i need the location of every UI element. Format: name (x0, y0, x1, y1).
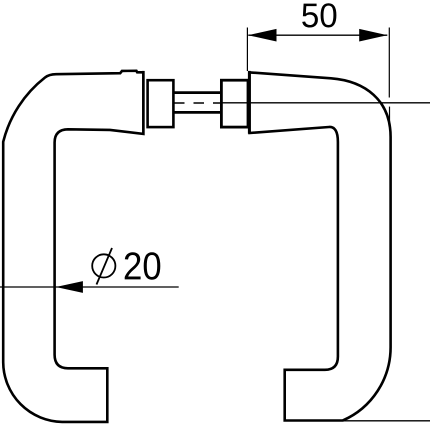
right rose collar (221, 80, 248, 127)
dimension text 20 (125, 252, 161, 280)
dimension line 50 (248, 34, 387, 36)
left rose collar (148, 80, 174, 127)
arrowhead right of 50 dimension (359, 29, 387, 42)
right handle neck flange (248, 71, 251, 134)
diameter symbol circle (92, 254, 115, 277)
spindle top line (173, 91, 220, 94)
right handle outline (250, 72, 391, 420)
ground reference line bottom right (344, 420, 430, 422)
axis centerline solid segment (221, 102, 430, 104)
spindle bottom line (173, 111, 220, 114)
left handle neck flange (142, 71, 144, 134)
left handle outline (3, 71, 143, 422)
dimension line 20 (0, 286, 179, 288)
diameter symbol slash (97, 248, 113, 285)
arrowhead left of 50 dimension (248, 29, 277, 42)
arrowhead of 20 dimension pointing left (56, 281, 83, 293)
axis centerline dashed segment (174, 102, 221, 104)
dimension text 50 (302, 3, 336, 27)
extension line right lower segment (389, 107, 391, 126)
extension line left (at neck flange) (246, 28, 248, 72)
extension line right upper segment (388, 28, 390, 98)
